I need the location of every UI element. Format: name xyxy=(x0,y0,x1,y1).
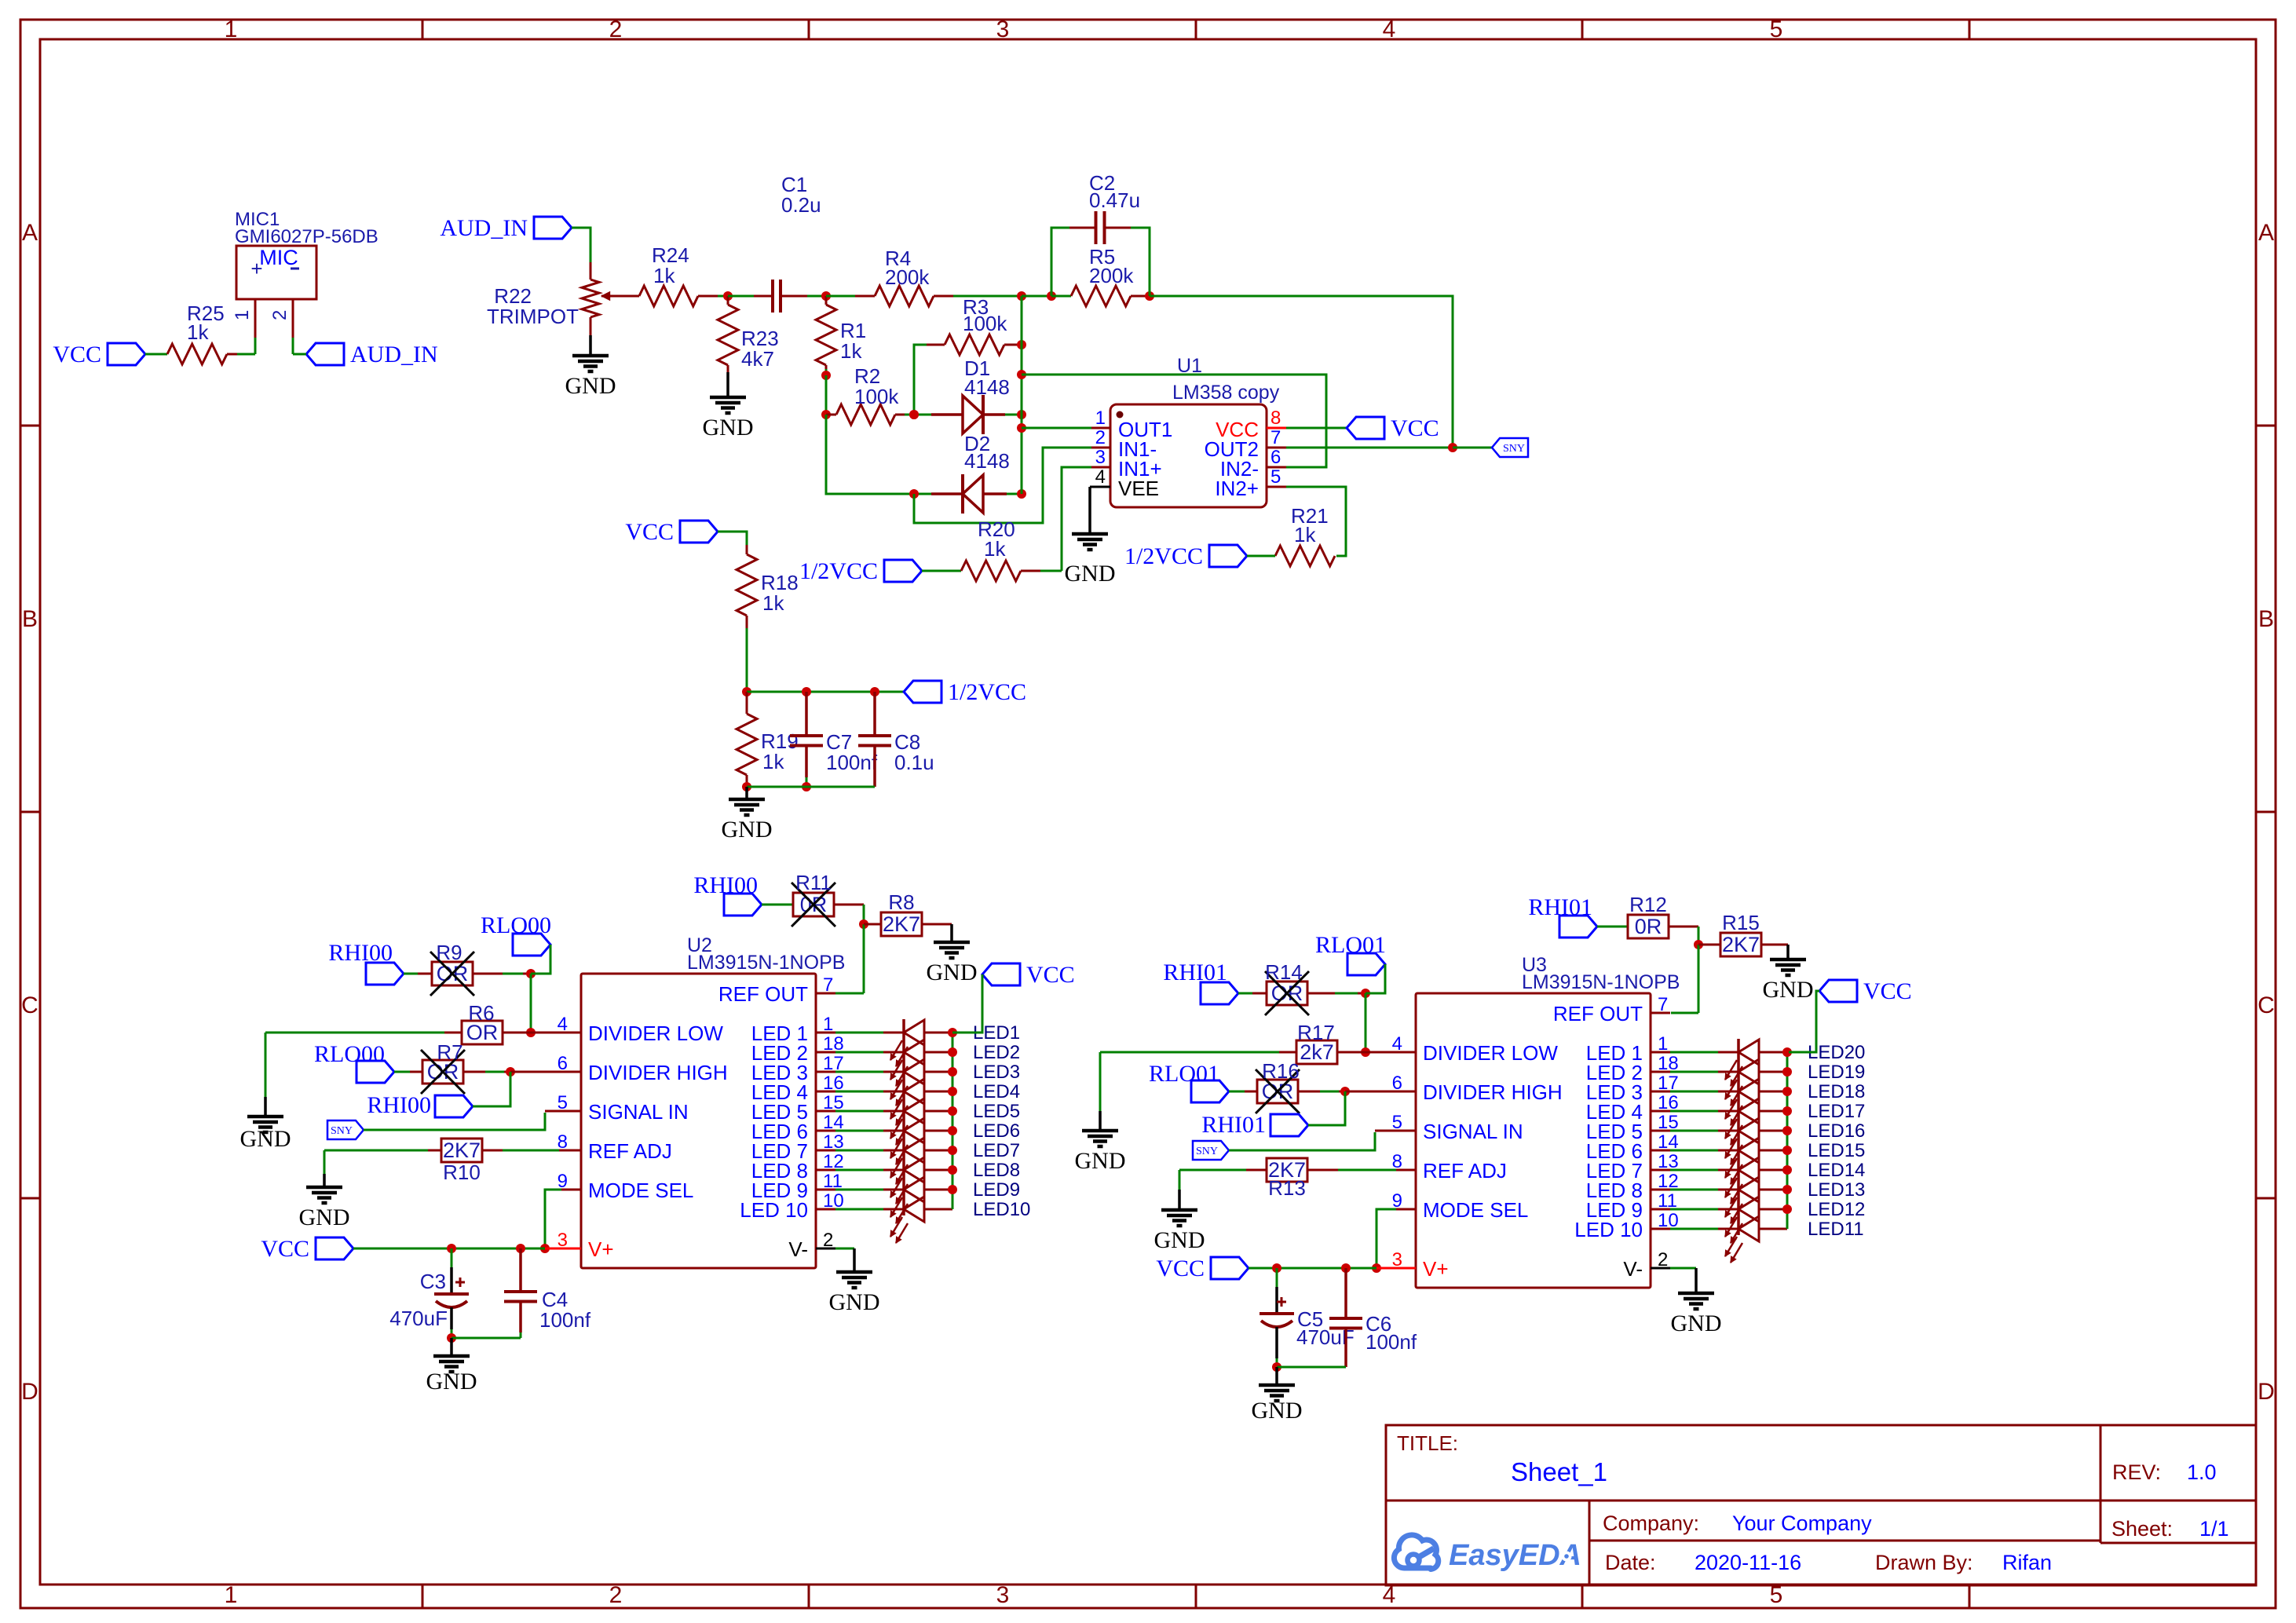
U3 pin 4 DIVIDER LOW xyxy=(1396,1051,1416,1054)
svg-text:5: 5 xyxy=(1770,16,1783,42)
svg-text:R17: R17 xyxy=(1297,1021,1335,1044)
LED LED4 xyxy=(835,1091,883,1093)
svg-text:GND: GND xyxy=(703,415,754,440)
svg-text:SNY: SNY xyxy=(1196,1146,1218,1157)
wire xyxy=(463,1071,485,1073)
svg-text:1/2VCC: 1/2VCC xyxy=(1124,543,1203,569)
node LED rail xyxy=(948,1087,957,1096)
U2 pin 6 DIVIDER HIGH xyxy=(561,1071,581,1073)
node LED rail xyxy=(948,1028,957,1037)
svg-text:2: 2 xyxy=(823,1230,833,1251)
wire xyxy=(762,904,793,906)
LED LED8 xyxy=(835,1169,883,1172)
svg-text:1: 1 xyxy=(823,1014,833,1035)
net flag AUD_IN (amp input) xyxy=(534,217,572,239)
svg-text:GND: GND xyxy=(1671,1310,1722,1336)
svg-text:7: 7 xyxy=(1658,994,1668,1015)
node LED rail xyxy=(1782,1185,1792,1194)
wire xyxy=(825,375,828,415)
svg-text:100nf: 100nf xyxy=(826,751,878,774)
resistor R13 2K7 xyxy=(1267,1158,1307,1182)
wire OUT2 to SNY xyxy=(1286,447,1453,449)
svg-text:C: C xyxy=(2258,992,2275,1018)
LED LED20 xyxy=(1670,1051,1718,1054)
svg-text:R8: R8 xyxy=(888,890,914,914)
svg-text:1k: 1k xyxy=(653,264,675,287)
svg-text:U1: U1 xyxy=(1177,355,1202,377)
wire OUT1 net xyxy=(1022,427,1091,430)
svg-text:VCC: VCC xyxy=(261,1236,309,1262)
wire (up to R3) xyxy=(914,345,927,415)
resistor R12 0R xyxy=(1628,915,1669,938)
svg-text:3: 3 xyxy=(996,16,1010,42)
node DIVIDER LOW xyxy=(526,1028,536,1037)
LED LED13 xyxy=(1670,1189,1718,1191)
svg-text:Your Company: Your Company xyxy=(1732,1512,1872,1535)
wire xyxy=(324,1150,428,1152)
node LED rail xyxy=(1782,1087,1792,1096)
net flag SNY (U3) xyxy=(1193,1141,1229,1160)
U3 pin 9 MODE SEL xyxy=(1396,1208,1416,1211)
svg-text:LED10: LED10 xyxy=(973,1199,1030,1220)
ground (U3 DIVIDER LOW) xyxy=(1099,1052,1102,1111)
svg-text:100k: 100k xyxy=(854,385,899,408)
resistor R8 2K7 xyxy=(864,923,881,926)
svg-text:V-: V- xyxy=(1623,1257,1643,1281)
U1 pin 3 IN1+ xyxy=(1091,466,1110,469)
U2 pin 10 LED 10 xyxy=(816,1208,835,1211)
LED LED2 xyxy=(835,1051,883,1054)
svg-text:1: 1 xyxy=(225,16,238,42)
svg-text:200k: 200k xyxy=(1089,264,1134,287)
svg-text:LED7: LED7 xyxy=(973,1140,1020,1161)
node main/R4 xyxy=(1017,291,1026,301)
svg-text:REF ADJ: REF ADJ xyxy=(1423,1159,1507,1183)
svg-text:Company:: Company: xyxy=(1603,1512,1699,1535)
wire IN2- net xyxy=(1022,375,1326,467)
node LED rail xyxy=(948,1185,957,1194)
wire DIVIDER LOW left (U3) xyxy=(1100,1051,1279,1054)
svg-text:GND: GND xyxy=(1065,561,1116,587)
svg-text:1: 1 xyxy=(1658,1033,1668,1055)
wire xyxy=(1179,1169,1246,1172)
svg-text:LED13: LED13 xyxy=(1808,1179,1865,1201)
net flag VCC (MIC) xyxy=(108,343,145,365)
LED LED11 xyxy=(1670,1228,1718,1230)
node DIVIDER HIGH xyxy=(506,1067,515,1077)
LED LED5 xyxy=(835,1110,883,1113)
net flag SNY (U2) xyxy=(327,1120,364,1139)
net flag VCC (U2 V+) xyxy=(316,1237,353,1259)
U3 pin 17 LED 3 xyxy=(1651,1091,1670,1093)
wire xyxy=(1669,926,1698,928)
U3 pin 8 REF ADJ xyxy=(1396,1169,1416,1172)
resistor R5 200k xyxy=(1051,295,1071,298)
IC U2 LM3915N-1NOPB xyxy=(581,974,816,1268)
svg-text:RHI01: RHI01 xyxy=(1201,1112,1266,1138)
svg-text:LED6: LED6 xyxy=(973,1120,1020,1142)
svg-text:5: 5 xyxy=(1270,466,1281,488)
resistor R10 2K7 xyxy=(441,1139,482,1162)
wire xyxy=(473,973,503,975)
svg-text:LM3915N-1NOPB: LM3915N-1NOPB xyxy=(1522,971,1680,993)
ground (R8) xyxy=(950,924,953,942)
U1 pin 8 VCC xyxy=(1267,427,1286,430)
svg-text:GND: GND xyxy=(240,1126,291,1152)
svg-text:LED18: LED18 xyxy=(1808,1081,1865,1102)
svg-text:SIGNAL IN: SIGNAL IN xyxy=(1423,1120,1523,1143)
svg-text:A: A xyxy=(2258,220,2274,246)
ground (R15) xyxy=(1786,945,1790,960)
wire xyxy=(1229,1091,1245,1093)
node R3 right xyxy=(1017,340,1026,349)
node OUT1 tap xyxy=(1017,423,1026,433)
wire xyxy=(747,786,875,788)
svg-text:DIVIDER HIGH: DIVIDER HIGH xyxy=(588,1061,728,1084)
LED LED14 xyxy=(1670,1169,1718,1172)
svg-text:2: 2 xyxy=(1095,427,1106,448)
svg-text:D: D xyxy=(21,1379,38,1405)
svg-text:LED9: LED9 xyxy=(973,1179,1020,1201)
U3 pin 6 DIVIDER HIGH xyxy=(1396,1091,1416,1093)
svg-text:SNY: SNY xyxy=(331,1125,353,1137)
svg-text:1k: 1k xyxy=(840,339,862,363)
node LED rail xyxy=(948,1146,957,1155)
net flag VCC (U3 LEDs) xyxy=(1819,980,1857,1002)
node C7 top xyxy=(802,687,811,696)
svg-text:B: B xyxy=(2258,606,2274,632)
net flag VCC (U2 LEDs) xyxy=(982,963,1020,985)
column ticks top xyxy=(422,20,424,39)
svg-text:TITLE:: TITLE: xyxy=(1397,1431,1458,1455)
capacitor C5 470uF (electrolytic) xyxy=(1276,1268,1278,1287)
LED LED17 xyxy=(1670,1110,1718,1113)
node C3 bottom xyxy=(447,1333,456,1343)
U3 pin 18 LED 2 xyxy=(1651,1071,1670,1073)
resistor R23 4k7 xyxy=(727,296,729,305)
svg-text:V-: V- xyxy=(788,1237,808,1261)
svg-text:100k: 100k xyxy=(963,312,1007,335)
svg-text:R13: R13 xyxy=(1268,1176,1306,1200)
wire xyxy=(1308,1091,1345,1125)
node D1 cathode xyxy=(1017,410,1026,419)
wire VCC pin8 xyxy=(1286,427,1347,430)
U3 pin 12 LED 8 xyxy=(1651,1189,1670,1191)
svg-text:0R: 0R xyxy=(1635,915,1662,938)
svg-text:4148: 4148 xyxy=(964,449,1010,473)
svg-text:B: B xyxy=(22,606,38,632)
svg-text:100nf: 100nf xyxy=(539,1308,591,1332)
U3 pin 2 V- xyxy=(1651,1267,1670,1270)
resistor R15 2K7 xyxy=(1698,944,1720,946)
svg-text:REF OUT: REF OUT xyxy=(1553,1002,1643,1025)
svg-text:R10: R10 xyxy=(443,1161,481,1184)
svg-text:R16: R16 xyxy=(1262,1059,1300,1083)
U2 pin 9 MODE SEL xyxy=(561,1189,581,1191)
wire V+ U3 xyxy=(1249,1267,1377,1270)
svg-text:1: 1 xyxy=(1095,408,1106,429)
IC U3 LM3915N-1NOPB xyxy=(1416,993,1651,1288)
svg-text:VCC: VCC xyxy=(1863,978,1912,1004)
ground (C5/C6) xyxy=(1275,1367,1278,1385)
LED LED15 xyxy=(1670,1150,1718,1152)
svg-text:3: 3 xyxy=(1095,447,1106,468)
wire xyxy=(922,570,961,572)
svg-text:200k: 200k xyxy=(885,265,930,289)
svg-text:LED4: LED4 xyxy=(973,1081,1020,1102)
svg-text:R7: R7 xyxy=(437,1040,462,1064)
node MODE SEL / V+ xyxy=(540,1244,550,1253)
node LED rail xyxy=(1782,1106,1792,1116)
svg-text:LED17: LED17 xyxy=(1808,1101,1865,1122)
svg-text:2020-11-16: 2020-11-16 xyxy=(1695,1551,1801,1574)
wire xyxy=(1453,447,1492,449)
wire MODE SEL U3 xyxy=(1396,1208,1416,1211)
svg-text:4148: 4148 xyxy=(964,375,1010,399)
resistor R17 2k7 xyxy=(1279,1051,1296,1054)
U3 pin 11 LED 9 xyxy=(1651,1208,1670,1211)
svg-text:0.47u: 0.47u xyxy=(1089,188,1140,212)
node OUT2/SNY xyxy=(1448,443,1457,452)
node C6 top xyxy=(1341,1263,1351,1273)
resistor R7 0R (crossed out) xyxy=(422,1060,463,1084)
wire 1/2VCC net xyxy=(747,691,904,693)
node R1/R2 rail xyxy=(821,371,831,380)
svg-text:R9: R9 xyxy=(436,941,462,964)
resistor R16 0R (crossed out) xyxy=(1257,1080,1298,1103)
svg-text:GND: GND xyxy=(299,1204,350,1230)
node LED rail xyxy=(948,1047,957,1057)
node C7 bottom xyxy=(802,782,811,791)
LED LED19 xyxy=(1670,1071,1718,1073)
row ticks right xyxy=(2256,425,2276,427)
wire xyxy=(404,973,418,975)
LED LED1 xyxy=(835,1032,883,1034)
svg-text:1/2VCC: 1/2VCC xyxy=(948,679,1026,705)
U2 pin 15 LED 5 xyxy=(816,1110,835,1113)
resistor R24 1k xyxy=(639,286,698,306)
wire xyxy=(834,904,864,906)
svg-text:LED16: LED16 xyxy=(1808,1120,1865,1142)
svg-text:3: 3 xyxy=(996,1582,1010,1608)
svg-text:LM358 copy: LM358 copy xyxy=(1172,382,1280,404)
resistor R18 1k xyxy=(746,545,748,554)
svg-text:6: 6 xyxy=(1270,447,1281,468)
node LED rail xyxy=(948,1067,957,1077)
svg-text:R14: R14 xyxy=(1265,960,1303,984)
svg-text:4k7: 4k7 xyxy=(741,347,774,371)
svg-text:MODE SEL: MODE SEL xyxy=(1423,1198,1528,1222)
node REF OUT / R15 xyxy=(1694,940,1703,949)
U2 pin 4 DIVIDER LOW xyxy=(561,1032,581,1034)
node LED rail xyxy=(1782,1165,1792,1175)
svg-text:GND: GND xyxy=(927,960,978,985)
capacitor C1 0.2u xyxy=(771,280,774,313)
svg-text:LED 10: LED 10 xyxy=(740,1198,808,1222)
svg-text:REF OUT: REF OUT xyxy=(718,982,808,1006)
svg-text:REV:: REV: xyxy=(2112,1460,2161,1484)
svg-text:1k: 1k xyxy=(187,320,209,344)
svg-text:1k: 1k xyxy=(1294,523,1316,546)
U3 pin 14 LED 6 xyxy=(1651,1150,1670,1152)
wire MODE SEL xyxy=(561,1189,581,1191)
svg-text:GND: GND xyxy=(1252,1398,1303,1424)
wire xyxy=(473,1072,510,1106)
wire xyxy=(863,924,865,993)
resistor R6 0R xyxy=(444,1032,462,1034)
svg-text:C3: C3 xyxy=(420,1270,446,1293)
wire V- to ground U3 xyxy=(1670,1267,1696,1270)
node DIVIDER LOW U3 xyxy=(1361,1047,1370,1057)
LED LED12 xyxy=(1670,1208,1718,1211)
wire xyxy=(572,228,590,262)
svg-text:GND: GND xyxy=(1763,977,1814,1003)
node C3 top xyxy=(447,1244,456,1253)
net flag 1/2VCC (R21) xyxy=(1209,545,1247,567)
svg-text:+: + xyxy=(250,257,262,280)
node R2/D1/R3 rail xyxy=(909,410,919,419)
U3 pin 1 LED 1 xyxy=(1651,1051,1670,1054)
wire V+ xyxy=(353,1248,545,1250)
U2 pin 12 LED 8 xyxy=(816,1169,835,1172)
ground (U1 VEE) xyxy=(1088,487,1091,534)
wire xyxy=(698,295,718,298)
MIC1 pin 1 xyxy=(254,299,257,338)
wire (main to right corner) xyxy=(1150,296,1453,448)
wire IN2+ to R21 xyxy=(1286,487,1346,556)
ground (R22) xyxy=(589,335,592,356)
wire (feedback rail) xyxy=(1021,296,1023,494)
node divider bottom xyxy=(742,782,751,791)
ground (U3 V-) xyxy=(1678,1292,1714,1296)
wire DIVIDER LOW left xyxy=(265,1032,444,1034)
node R5 right / C2 xyxy=(1145,291,1154,301)
svg-text:AUD_IN: AUD_IN xyxy=(350,342,438,367)
ground (R10) xyxy=(323,1174,326,1187)
U1 pin 7 OUT2 xyxy=(1267,447,1286,449)
svg-text:C: C xyxy=(21,992,38,1018)
ground (R13) xyxy=(1178,1190,1181,1210)
svg-text:DIVIDER LOW: DIVIDER LOW xyxy=(588,1022,723,1045)
svg-text:Sheet_1: Sheet_1 xyxy=(1511,1457,1607,1486)
U2 pin 17 LED 3 xyxy=(816,1071,835,1073)
LED LED6 xyxy=(835,1130,883,1132)
node LED rail xyxy=(1782,1204,1792,1214)
capacitor C3 470uF (electrolytic) xyxy=(451,1248,453,1267)
svg-text:VCC: VCC xyxy=(625,519,674,545)
svg-text:1/2VCC: 1/2VCC xyxy=(799,558,878,584)
ground (C3/C4) xyxy=(450,1338,453,1356)
U2 pin 18 LED 2 xyxy=(816,1051,835,1054)
svg-text:0.2u: 0.2u xyxy=(781,193,821,217)
svg-text:2K7: 2K7 xyxy=(883,912,920,936)
ground (U2 V-) xyxy=(836,1270,872,1274)
node C4 top xyxy=(516,1244,525,1253)
net flag 1/2VCC (divider out) xyxy=(904,681,941,703)
U2 pin 2 V- xyxy=(816,1248,835,1250)
LED LED7 xyxy=(835,1150,883,1152)
svg-text:1/1: 1/1 xyxy=(2199,1517,2229,1541)
svg-text:VEE: VEE xyxy=(1118,477,1159,500)
resistor R2 100k xyxy=(826,414,836,416)
resistor R20 1k xyxy=(961,561,1021,581)
svg-text:MODE SEL: MODE SEL xyxy=(588,1179,693,1202)
svg-text:2: 2 xyxy=(269,310,291,320)
wire xyxy=(1298,1091,1320,1093)
svg-text:DIVIDER LOW: DIVIDER LOW xyxy=(1423,1041,1558,1065)
svg-text:7: 7 xyxy=(823,974,833,996)
wire V- to ground xyxy=(835,1248,854,1250)
node LED rail xyxy=(948,1165,957,1175)
svg-text:2K7: 2K7 xyxy=(443,1139,481,1162)
svg-text:GND: GND xyxy=(426,1369,477,1395)
svg-text:A: A xyxy=(22,220,38,246)
U3 pin 3 V+ xyxy=(1396,1267,1416,1270)
svg-text:4: 4 xyxy=(1383,16,1396,42)
svg-text:0.1u: 0.1u xyxy=(894,751,934,774)
resistor R25 1k xyxy=(167,344,227,364)
node DIVIDER HIGH U3 xyxy=(1340,1087,1350,1096)
U1 pin 2 IN1- xyxy=(1091,447,1110,449)
microphone MIC1 box xyxy=(236,246,316,299)
wire xyxy=(1597,926,1628,928)
LED LED18 xyxy=(1670,1091,1718,1093)
wire xyxy=(718,532,747,545)
svg-text:LED11: LED11 xyxy=(1808,1219,1864,1240)
svg-text:VCC: VCC xyxy=(1391,415,1439,441)
U1 pin 4 VEE xyxy=(1090,486,1110,488)
node MODE SEL / V+ U3 xyxy=(1372,1263,1381,1273)
svg-text:VCC: VCC xyxy=(1026,962,1075,988)
capacitor C7 100nf xyxy=(805,692,808,736)
svg-text:Date:: Date: xyxy=(1605,1551,1656,1574)
svg-text:IN2+: IN2+ xyxy=(1215,477,1259,500)
svg-text:Sheet:: Sheet: xyxy=(2111,1517,2173,1541)
wire xyxy=(1238,992,1252,995)
U2 pin 11 LED 9 xyxy=(816,1189,835,1191)
wire IN1+ net xyxy=(1062,467,1091,571)
U2 pin 8 REF ADJ xyxy=(561,1150,581,1152)
U1 pin 5 IN2+ xyxy=(1267,486,1286,488)
net flag 1/2VCC (R20) xyxy=(884,560,922,582)
node C8 top xyxy=(870,687,879,696)
resistor R4 200k xyxy=(826,295,855,298)
svg-text:R6: R6 xyxy=(468,1001,494,1025)
svg-text:LED2: LED2 xyxy=(973,1042,1020,1063)
node divider mid xyxy=(742,687,751,696)
net flag VCC (U1) xyxy=(1347,417,1384,439)
svg-text:RLO01: RLO01 xyxy=(1149,1061,1219,1087)
svg-text:GMI6027P-56DB: GMI6027P-56DB xyxy=(235,226,378,247)
svg-text:1k: 1k xyxy=(762,591,784,615)
node LED rail xyxy=(1782,1146,1792,1155)
node D2 cathode xyxy=(909,489,919,499)
svg-text:LED5: LED5 xyxy=(973,1101,1020,1122)
svg-text:RLO00: RLO00 xyxy=(314,1041,385,1067)
svg-text:RHI00: RHI00 xyxy=(367,1092,431,1118)
node C5 top xyxy=(1272,1263,1281,1273)
LED LED3 xyxy=(835,1071,883,1073)
wire IN1- net xyxy=(914,448,1091,523)
svg-text:LED12: LED12 xyxy=(1808,1199,1865,1220)
capacitor C8 0.1u xyxy=(873,692,876,736)
svg-text:LED19: LED19 xyxy=(1808,1062,1865,1083)
ground (DIVIDER LOW) xyxy=(265,1033,267,1097)
svg-text:LED8: LED8 xyxy=(973,1160,1020,1181)
node LED rail xyxy=(948,1106,957,1116)
svg-text:2K7: 2K7 xyxy=(1722,933,1760,956)
LED LED16 xyxy=(1670,1130,1718,1132)
